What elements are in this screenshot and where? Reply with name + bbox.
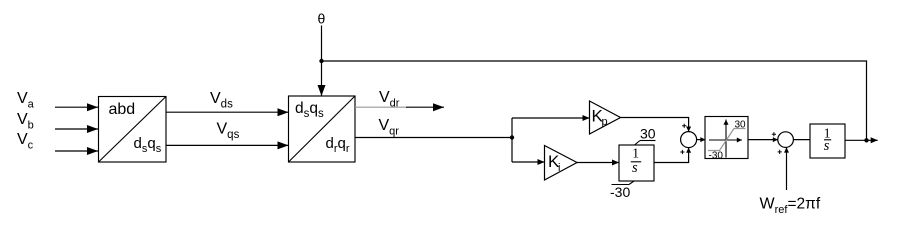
plus sign left input sum2 bbox=[772, 132, 776, 136]
svg-text:s: s bbox=[632, 160, 638, 176]
wire split vertical bbox=[511, 118, 513, 162]
wire output w bbox=[845, 139, 878, 141]
svg-text:s: s bbox=[824, 138, 830, 154]
svg-text:1: 1 bbox=[632, 146, 639, 161]
plus sign top input sum1 bbox=[682, 124, 686, 128]
wire to Kp bbox=[512, 117, 590, 119]
plus sign bottom input sum1 bbox=[680, 150, 684, 154]
integrator I1 limited 1/s bbox=[619, 145, 654, 181]
wire integrator output to sum1 bbox=[654, 148, 689, 163]
svg-text:Vdr: Vdr bbox=[379, 89, 400, 110]
svg-text:Vqr: Vqr bbox=[379, 117, 400, 138]
block U1 abc-to-dsqs transform bbox=[99, 97, 167, 163]
wire to Ki bbox=[512, 161, 545, 163]
svg-text:Vqs: Vqs bbox=[217, 121, 240, 142]
wire sum2 to integrator I2 bbox=[793, 139, 810, 141]
svg-text:Wref=2πf: Wref=2πf bbox=[760, 196, 821, 217]
svg-text:abd: abd bbox=[109, 101, 136, 118]
wire Vqr bbox=[355, 137, 512, 139]
wire Vqs bbox=[166, 144, 289, 146]
wire Wref into sum2 bbox=[786, 147, 788, 190]
svg-text:Vb: Vb bbox=[17, 111, 34, 132]
wire Ki output into integrator bbox=[577, 162, 619, 164]
svg-text:Vc: Vc bbox=[17, 131, 34, 152]
junction dot theta node bbox=[319, 59, 323, 63]
block U2 dsqs-to-drqr transform bbox=[289, 96, 356, 162]
upper limit label 30 of I1 bbox=[635, 126, 656, 146]
integrator I2 1/s bbox=[810, 124, 845, 158]
wire Va input arrow bbox=[55, 106, 98, 108]
svg-text:Va: Va bbox=[17, 90, 35, 111]
gain Kp bbox=[590, 101, 621, 134]
wire Kp output bbox=[621, 118, 689, 132]
wire Vdr output arrow bbox=[406, 106, 444, 108]
svg-text:30: 30 bbox=[735, 120, 747, 131]
svg-text:p: p bbox=[602, 116, 608, 128]
summing junction S1 bbox=[681, 132, 697, 148]
svg-text:θ: θ bbox=[318, 11, 326, 27]
gain Ki bbox=[545, 146, 578, 181]
wire Vdr gray segment bbox=[355, 106, 406, 108]
svg-text:-30: -30 bbox=[610, 184, 630, 200]
svg-text:30: 30 bbox=[640, 126, 656, 142]
wire Vc input arrow bbox=[55, 150, 98, 152]
junction dot Vqr split bbox=[510, 135, 514, 139]
svg-text:i: i bbox=[558, 162, 560, 174]
svg-text:Vds: Vds bbox=[210, 90, 233, 111]
wire Vb input arrow bbox=[55, 128, 98, 130]
svg-text:-30: -30 bbox=[709, 150, 724, 161]
wire theta down into block U2 bbox=[321, 26, 323, 97]
lower limit label -30 of I1 bbox=[610, 181, 634, 200]
wire feedback top horizontal bbox=[322, 61, 867, 140]
wire saturation to sum2 bbox=[748, 139, 778, 141]
wire Vds bbox=[166, 111, 289, 113]
junction dot feedback takeoff bbox=[864, 138, 868, 142]
saturation block SAT bbox=[705, 117, 748, 162]
wire sum1 to saturation bbox=[697, 139, 706, 141]
plus sign bottom input sum2 bbox=[778, 150, 782, 154]
summing junction S2 bbox=[778, 132, 794, 148]
